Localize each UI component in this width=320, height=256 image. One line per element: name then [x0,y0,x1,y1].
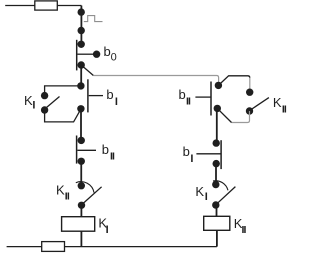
node: E4 bottom terminal dot [213,160,220,167]
contact KII-right blade [252,98,269,109]
resistor R-top [35,1,58,10]
node: group bottom dot [77,105,84,112]
E4 base lead [196,153,221,155]
node: right rail top dot [215,82,222,89]
node: contact KI-right upper dot [212,181,219,188]
svg-text:I: I [106,224,109,236]
label KI (left coil) [98,216,108,236]
wire: top supply lead left [5,5,35,7]
svg-text:II: II [65,190,70,202]
wire: rail down to contact KII [80,161,82,185]
wire: top supply lead right to rail corner [57,5,81,7]
E3 base lead [195,96,211,98]
contact K I (bottom-right): actuation arc [213,181,228,191]
node: contact KI lower-left dot [41,106,48,113]
label bI (right) [183,144,194,165]
wire: bottom rail to right coil [65,246,217,248]
E0 base lead [78,53,94,55]
node: rail dot second [78,27,85,34]
svg-text:II: II [282,104,287,116]
svg-text:I: I [190,153,193,165]
svg-text:K: K [56,183,65,198]
contact KI blade [47,97,60,108]
wire: black diagonal return to rail [217,108,231,122]
wire: dot to coil KI [80,205,82,216]
node: group top dot [77,82,84,89]
wire: rail down to contact KI-right [215,164,217,185]
wire: cross-coupling diagonal (black part) [81,65,93,76]
svg-text:b: b [102,142,109,157]
switching element E1 (controlled by bI): bar [87,79,89,112]
node: contact KII-right lower dot [246,107,253,114]
label KI (top-left contact) [24,93,35,111]
wire: right rail down to E4 [216,108,218,143]
svg-text:II: II [110,151,115,163]
contact KI-right blade [218,187,236,204]
label bII (right) [179,87,192,107]
wire: right top link diagonal+horizontal [218,76,249,86]
wire: cross-coupling long gray wire to right branch [93,76,218,86]
svg-text:II: II [186,96,191,108]
node: E2 bottom terminal dot [78,158,85,165]
node: rail dot top [78,8,85,15]
label KI (bottom-right contact) [195,184,207,203]
contact K II (lower-left): actuation arc [76,182,94,193]
switching element E2 (controlled by bII): bar [76,136,78,164]
clock signal symbol (gray square wave) [84,16,103,22]
node: contact KI upper-left dot [41,92,48,99]
label KII (lower-left contact) [56,183,70,203]
svg-text:b: b [183,144,190,159]
wire: bottom rail left [7,246,42,248]
switching element E3 (controlled by bII): bar [210,82,212,116]
contact KII blade [83,187,102,204]
svg-text:b: b [106,87,113,102]
svg-text:I: I [115,96,118,108]
svg-text:0: 0 [111,52,117,64]
node: contact KII upper dot [78,182,85,189]
svg-text:II: II [242,224,247,236]
wire: dot to coil KII [216,205,218,216]
contact K II (top-right): upper dot [246,89,253,96]
node: contact KI-right lower dot [212,201,219,208]
svg-text:b: b [179,87,186,102]
coil K II [204,216,230,230]
node: b0 terminal dot [93,51,100,58]
resistor R-bottom [42,242,65,252]
wire: coil KI to bottom rail [80,231,82,246]
node: E2 top terminal dot [78,137,85,144]
svg-text:I: I [32,99,35,111]
node: E0 bottom terminal dot [78,61,85,68]
svg-text:I: I [205,191,208,203]
node: E0 top terminal dot [78,41,85,48]
label KII (top-right contact) [273,95,287,116]
wire: rail E0 to K1 group [80,65,82,86]
coil K I [62,217,95,232]
switching element E4 (controlled by bI): bar [220,140,222,169]
E2 base lead [77,149,96,151]
label bI (left) [106,87,118,108]
E1 base lead [89,95,103,97]
switching element E0 (controlled by b0): bar [76,40,78,71]
label KII (right coil) [234,216,247,236]
label bII (left) [102,142,115,163]
label b0 [104,44,117,63]
node: E3 bottom terminal dot [214,105,221,112]
wire: contact KI bottom link [45,110,81,122]
svg-text:K: K [273,95,282,110]
node: E4 top terminal dot [213,139,220,146]
wire: gray bottom return of KII-right [232,111,250,123]
svg-text:K: K [195,184,204,199]
wire: rail down to E2 [80,109,82,141]
wire: gray drop to contact KII-right upper dot [249,78,251,92]
node: contact KII lower dot [78,202,85,209]
contact K I (top-left parallel contact): top link [45,86,81,96]
